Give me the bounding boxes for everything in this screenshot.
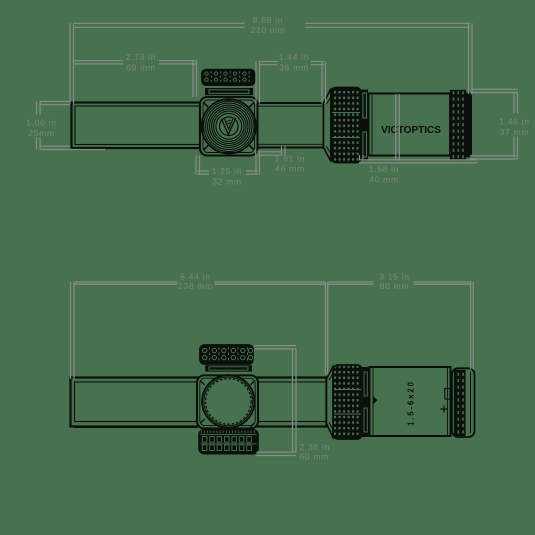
focus index marks <box>374 389 451 413</box>
side view main tube <box>72 103 201 149</box>
windage turret cap plan <box>200 345 253 364</box>
svg-text:25mm: 25mm <box>28 128 54 138</box>
dim 1.81 in / 46 mm <box>256 147 306 174</box>
svg-text:VICTOPTICS: VICTOPTICS <box>381 125 441 136</box>
dim 2.36 in / 60 mm <box>257 442 330 461</box>
plan view ocular body <box>370 367 451 436</box>
dim 1.00 in / 25mm <box>26 102 105 150</box>
plan view main tube <box>71 378 327 428</box>
dim 1.46 in / 37 mm <box>470 89 530 159</box>
diopter ring side view <box>451 91 466 160</box>
svg-text:3.15 in: 3.15 in <box>379 271 409 281</box>
svg-text:1.00 in: 1.00 in <box>26 118 56 128</box>
svg-text:40 mm: 40 mm <box>369 174 398 184</box>
svg-text:1.81 in: 1.81 in <box>275 153 305 163</box>
svg-text:32 mm: 32 mm <box>212 176 241 186</box>
elevation cap from above (circle) <box>202 375 254 427</box>
svg-text:1.46 in: 1.46 in <box>499 117 529 127</box>
svg-text:69 mm: 69 mm <box>126 63 155 73</box>
VICTOPTICS brand text <box>381 125 441 136</box>
svg-text:5.44 in: 5.44 in <box>180 271 210 281</box>
plan view eyecup outline <box>452 368 475 437</box>
ocular body side view <box>369 94 451 156</box>
svg-text:2.73 in: 2.73 in <box>126 52 156 62</box>
svg-text:46 mm: 46 mm <box>275 164 304 174</box>
svg-text:37 mm: 37 mm <box>500 127 529 137</box>
svg-text:1.44 in: 1.44 in <box>279 52 309 62</box>
dim 2.73 in / 69 mm <box>74 52 197 97</box>
dim 1.25 in / 32 mm <box>196 156 260 187</box>
dim 8.66 in / 220 mm <box>70 15 472 104</box>
dim 5.44 in / 138 mm <box>71 271 328 379</box>
svg-text:60 mm: 60 mm <box>300 451 329 461</box>
dim 1.58 in / 40 mm <box>359 94 478 184</box>
eyecup end side view <box>464 93 472 158</box>
dim 3.15 in / 80 mm <box>328 271 474 369</box>
illumination turret plan (below tube) <box>199 430 258 454</box>
svg-text:36 mm: 36 mm <box>279 63 308 73</box>
windage cap base band <box>205 365 252 371</box>
rear tube section <box>258 103 324 148</box>
svg-text:220 mm: 220 mm <box>251 25 286 35</box>
plan view diopter ring <box>455 371 466 436</box>
elevation turret cap knurled <box>202 70 255 86</box>
dim 2.36 jogged extension: cap edge to block, vertical dimension line <box>255 346 297 453</box>
plan view eyepiece taper <box>327 366 335 439</box>
power ring knurled side view <box>331 88 361 163</box>
turret saddle <box>200 97 258 156</box>
svg-text:1.25 in: 1.25 in <box>212 166 242 176</box>
dim 1.44 in / 36 mm <box>256 52 326 103</box>
V logo <box>220 117 239 136</box>
model text 1.5-6x20 rotated <box>407 381 416 426</box>
plan view fiber ring with slots <box>362 367 370 437</box>
svg-text:138 mm: 138 mm <box>178 281 213 291</box>
svg-text:1.58 in: 1.58 in <box>369 164 399 174</box>
plan view power ring knurled <box>333 365 362 439</box>
fiber ring with slots side view <box>362 90 369 161</box>
eyepiece taper side view <box>324 89 332 162</box>
parallax turret face rings <box>202 99 256 153</box>
svg-text:80 mm: 80 mm <box>380 281 409 291</box>
saddle plan square <box>197 375 258 428</box>
turret cap base band <box>205 88 253 95</box>
svg-text:8.66 in: 8.66 in <box>253 15 283 25</box>
